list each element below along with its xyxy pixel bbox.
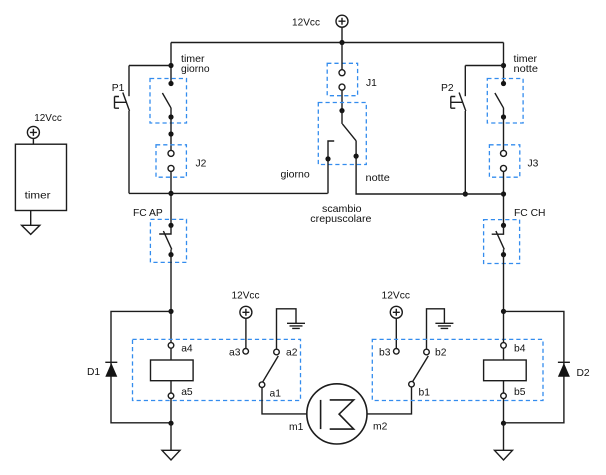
wire rail FC AP to relay A: [170, 255, 172, 343]
node right bottom junction: [501, 421, 506, 426]
wire b5 to ground junction: [503, 399, 505, 424]
limit switch FC AP: [133, 208, 187, 262]
wire rail J3 to FC CH: [503, 171, 505, 225]
svg-text:D1: D1: [87, 367, 100, 378]
timer block: [15, 113, 66, 235]
wire b4 to coil: [503, 348, 505, 360]
power supply 12Vcc contact a: [232, 291, 260, 349]
terminal a5: [168, 393, 174, 399]
svg-text:J1: J1: [366, 78, 377, 89]
svg-text:timer: timer: [25, 190, 52, 201]
wire P1 branch horizontal: [129, 65, 171, 67]
svg-text:12Vcc: 12Vcc: [232, 291, 260, 302]
svg-text:b5: b5: [514, 387, 526, 398]
svg-text:m1: m1: [289, 422, 304, 433]
relay coil A: [151, 360, 194, 381]
wire giorno horizontal: [129, 192, 328, 194]
diode D2: [558, 362, 590, 379]
wire D2 loop: [504, 311, 564, 422]
svg-text:12Vcc: 12Vcc: [382, 291, 411, 302]
relay B enclosure: [372, 339, 543, 400]
motor M: [289, 384, 388, 444]
wire rail FC CH to relay B: [503, 255, 505, 343]
svg-text:b3: b3: [379, 348, 391, 359]
relay coil B: [484, 360, 527, 381]
node dot below timer giorno: [168, 131, 173, 136]
switch timer notte: [487, 54, 538, 123]
svg-text:12Vcc: 12Vcc: [292, 17, 320, 28]
node timer giorno tee: [168, 63, 173, 68]
ground left: [162, 423, 180, 460]
svg-text:a5: a5: [181, 387, 193, 398]
svg-text:crepuscolare: crepuscolare: [310, 214, 371, 225]
svg-text:b2: b2: [435, 348, 447, 359]
wire b1 to motor: [367, 387, 412, 414]
diode D1: [87, 362, 117, 378]
wire left rail upper: [170, 43, 172, 84]
wire P2 branch horizontal: [465, 65, 503, 67]
wire rail J2 to FC AP: [170, 171, 172, 225]
wire D1 loop: [111, 311, 171, 422]
node left bottom junction: [168, 421, 173, 426]
terminal a4: [168, 343, 174, 349]
terminal b1: [409, 381, 415, 387]
changeover switch scambio crepuscolare: [310, 103, 371, 226]
power supply 12Vcc main: [292, 15, 348, 42]
node D2 branch junction: [501, 309, 506, 314]
switch blade a2-a1: [263, 356, 279, 382]
switch timer giorno: [150, 54, 210, 123]
node notte wire junction: [501, 191, 506, 196]
wire P1 lower vertical: [128, 111, 130, 193]
wire P2 upper vertical: [464, 66, 466, 97]
svg-text:FC CH: FC CH: [514, 208, 545, 219]
svg-text:a3: a3: [229, 348, 241, 359]
svg-text:J3: J3: [528, 159, 539, 170]
node timer notte tee: [501, 63, 506, 68]
terminal b2: [424, 349, 430, 355]
svg-text:P1: P1: [112, 83, 125, 94]
wire giorno drop: [327, 159, 329, 194]
wire coil to a5: [170, 381, 172, 393]
svg-text:m2: m2: [373, 422, 388, 433]
wire 12Vcc to J1: [341, 43, 343, 70]
wire J1 to scambio: [341, 90, 343, 111]
jumper J2: [156, 145, 207, 177]
wire notte drop and horizontal: [356, 156, 503, 194]
svg-text:a2: a2: [286, 348, 298, 359]
svg-text:a1: a1: [270, 389, 282, 400]
wire P1 upper vertical: [128, 66, 130, 97]
svg-text:b4: b4: [514, 343, 526, 354]
wire a5 to ground junction: [170, 399, 172, 424]
svg-text:FC AP: FC AP: [133, 208, 163, 219]
svg-text:giorno: giorno: [281, 170, 310, 181]
wire P2 lower vertical: [464, 111, 466, 194]
jumper J3: [489, 145, 538, 177]
wire top rail: [171, 42, 504, 44]
terminal b4: [501, 343, 507, 349]
node D1 branch junction: [168, 309, 173, 314]
pushbutton P2: [441, 83, 466, 111]
svg-text:J2: J2: [196, 159, 207, 170]
wire rail to J3: [503, 117, 505, 150]
svg-text:giorno: giorno: [181, 64, 210, 75]
switch blade b2-b1: [413, 356, 429, 382]
relay A enclosure: [133, 339, 301, 400]
wire a4 to coil: [170, 348, 172, 360]
svg-text:D2: D2: [577, 368, 590, 379]
svg-text:a4: a4: [181, 343, 193, 354]
jumper J1: [327, 63, 377, 95]
limit switch FC CH: [484, 208, 546, 263]
pushbutton P1: [112, 83, 130, 111]
svg-text:P2: P2: [441, 83, 454, 94]
node 12Vcc tap junction: [339, 40, 344, 45]
power supply 12Vcc contact b: [382, 291, 411, 349]
terminal a1: [259, 382, 265, 388]
earth ground b2: [427, 309, 454, 349]
terminal b5: [501, 393, 507, 399]
svg-text:notte: notte: [514, 64, 539, 75]
terminal a3: [243, 349, 249, 355]
terminal b3: [394, 349, 400, 355]
terminal a2: [274, 349, 280, 355]
svg-text:12Vcc: 12Vcc: [34, 113, 62, 124]
wire a1 to motor: [262, 388, 307, 414]
node P2 bottom junction: [463, 191, 468, 196]
wire coil to b5: [503, 381, 505, 393]
wire right rail upper: [503, 43, 505, 84]
earth ground a2: [277, 309, 306, 349]
node giorno wire junction: [168, 191, 173, 196]
wire rail to J2: [170, 117, 172, 150]
ground right: [495, 423, 513, 460]
svg-text:b1: b1: [419, 387, 431, 398]
svg-text:notte: notte: [366, 173, 391, 184]
